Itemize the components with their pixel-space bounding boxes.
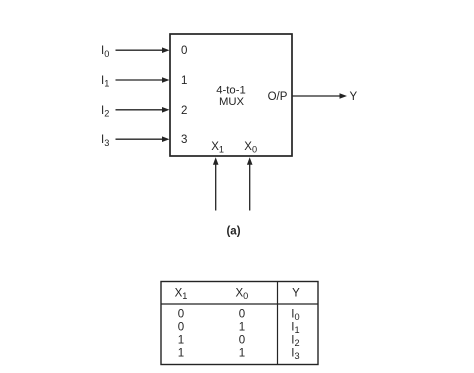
- svg-text:0: 0: [178, 322, 184, 334]
- wire select X0: [247, 157, 253, 210]
- wire input I1: [116, 77, 170, 83]
- svg-text:Y: Y: [350, 91, 358, 103]
- svg-text:0: 0: [178, 309, 184, 321]
- truth table row 1: 0 0 I0: [178, 309, 300, 323]
- truth table header underline: [161, 303, 318, 305]
- svg-text:4-to-1: 4-to-1: [216, 85, 246, 97]
- label 4-to-1 MUX: [216, 85, 246, 109]
- wire input I2: [116, 107, 170, 113]
- svg-text:Y: Y: [292, 287, 300, 299]
- svg-text:O/P: O/P: [268, 91, 288, 103]
- svg-text:0: 0: [239, 335, 245, 347]
- svg-text:3: 3: [181, 134, 187, 146]
- svg-text:1: 1: [239, 322, 245, 334]
- svg-text:1: 1: [181, 75, 187, 87]
- wire select X1: [213, 157, 219, 210]
- mux box U1: [170, 34, 292, 156]
- wire input I3: [116, 136, 170, 142]
- wire input I0: [116, 47, 170, 53]
- truth table row 4: 1 1 I3: [178, 348, 300, 362]
- svg-text:2: 2: [181, 105, 187, 117]
- truth table column divider: [277, 282, 279, 365]
- truth table frame: [161, 282, 318, 365]
- wire output Y: [292, 93, 347, 99]
- svg-text:(a): (a): [226, 226, 240, 238]
- truth table row 3: 1 0 I2: [178, 335, 300, 349]
- svg-text:0: 0: [181, 45, 187, 57]
- svg-text:1: 1: [178, 348, 184, 360]
- svg-text:0: 0: [239, 309, 245, 321]
- svg-text:1: 1: [178, 335, 184, 347]
- svg-text:MUX: MUX: [219, 96, 245, 108]
- svg-text:1: 1: [239, 348, 245, 360]
- truth table row 2: 0 1 I1: [178, 322, 300, 336]
